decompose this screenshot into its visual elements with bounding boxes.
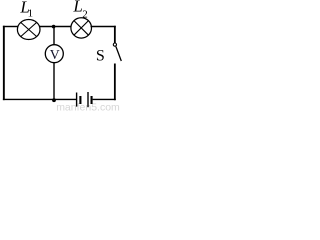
wire bottom-left — [3, 98, 76, 100]
switch S pivot — [113, 43, 116, 46]
battery cell 2 short plate — [91, 96, 93, 104]
battery cell 2 long plate — [87, 92, 89, 107]
voltmeter V — [45, 45, 63, 63]
junction node dot top — [52, 25, 56, 29]
lamp L1 — [17, 20, 40, 40]
wire top-left — [3, 26, 19, 28]
switch S blade — [116, 47, 121, 62]
svg-text:1: 1 — [28, 7, 33, 19]
svg-text:S: S — [96, 47, 105, 64]
wire top-right — [91, 26, 116, 28]
svg-text:2: 2 — [82, 8, 88, 20]
wire voltmeter top branch — [53, 26, 55, 45]
junction node dot bottom — [52, 98, 56, 102]
wire left rail — [3, 26, 5, 100]
lamp L2 — [71, 18, 92, 38]
wire right rail upper (to switch pivot) — [114, 26, 116, 43]
battery cell 1 long plate — [76, 93, 78, 107]
wire bottom-right — [93, 98, 116, 100]
wire voltmeter bottom branch — [53, 62, 55, 99]
battery cell 1 short plate — [79, 96, 81, 104]
wire right rail lower (switch to bottom corner) — [114, 64, 116, 101]
wire top-middle (between L1 and L2) — [40, 26, 72, 28]
svg-text:V: V — [50, 47, 60, 62]
